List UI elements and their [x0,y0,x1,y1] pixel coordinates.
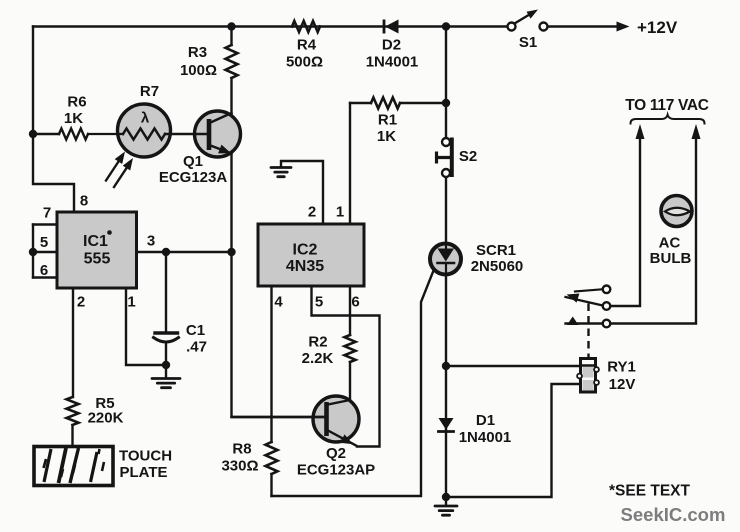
svg-text:Q2: Q2 [326,445,346,462]
svg-text:5: 5 [315,293,323,310]
svg-text:D1: D1 [476,412,495,429]
svg-text:IC1: IC1 [83,233,108,250]
svg-text:2: 2 [308,203,316,220]
svg-text:ECG123AP: ECG123AP [297,461,375,478]
svg-text:ECG123A: ECG123A [159,169,228,186]
svg-text:1K: 1K [64,110,83,127]
svg-text:R7: R7 [140,83,159,100]
svg-text:PLATE: PLATE [119,464,167,481]
svg-text:5: 5 [40,234,48,251]
svg-text:.47: .47 [186,338,207,355]
svg-text:AC: AC [659,234,681,251]
svg-text:100Ω: 100Ω [180,62,217,79]
svg-text:D2: D2 [382,37,401,54]
svg-text:R4: R4 [297,36,317,53]
svg-text:4: 4 [274,293,283,310]
svg-text:IC2: IC2 [293,241,318,258]
svg-text:TOUCH: TOUCH [119,447,172,464]
svg-text:S2: S2 [459,148,477,165]
svg-text:6: 6 [351,293,359,310]
svg-text:7: 7 [43,204,51,221]
svg-text:2N5060: 2N5060 [471,258,524,275]
svg-text:R8: R8 [232,440,251,457]
svg-text:TO 117 VAC: TO 117 VAC [625,97,709,114]
svg-text:R3: R3 [188,44,207,61]
svg-text:Q1: Q1 [183,153,203,170]
svg-text:SeekIC.com: SeekIC.com [621,504,726,525]
svg-text:6: 6 [40,262,48,279]
svg-text:BULB: BULB [650,250,692,267]
svg-text:555: 555 [84,250,111,267]
svg-text:1N4001: 1N4001 [459,429,512,446]
svg-text:RY1: RY1 [607,358,636,375]
svg-text:1: 1 [336,203,344,220]
svg-text:1: 1 [127,293,135,310]
svg-text:4N35: 4N35 [286,258,324,275]
svg-text:3: 3 [147,232,155,249]
svg-text:+12V: +12V [637,18,678,37]
svg-text:12V: 12V [609,376,636,393]
svg-text:8: 8 [80,192,88,209]
svg-text:2: 2 [77,293,85,310]
svg-text:220K: 220K [88,409,124,426]
svg-text:*SEE TEXT: *SEE TEXT [609,483,690,500]
svg-text:R6: R6 [67,93,86,110]
svg-text:C1: C1 [186,322,205,339]
svg-text:330Ω: 330Ω [221,457,258,474]
svg-text:R2: R2 [308,333,327,350]
svg-text:2.2K: 2.2K [302,350,334,367]
svg-text:1N4001: 1N4001 [366,53,419,70]
svg-text:R1: R1 [378,111,397,128]
svg-text:S1: S1 [519,34,537,51]
svg-text:500Ω: 500Ω [286,53,323,70]
svg-text:SCR1: SCR1 [476,242,516,259]
svg-text:1K: 1K [377,128,396,145]
svg-text:λ: λ [141,110,150,127]
